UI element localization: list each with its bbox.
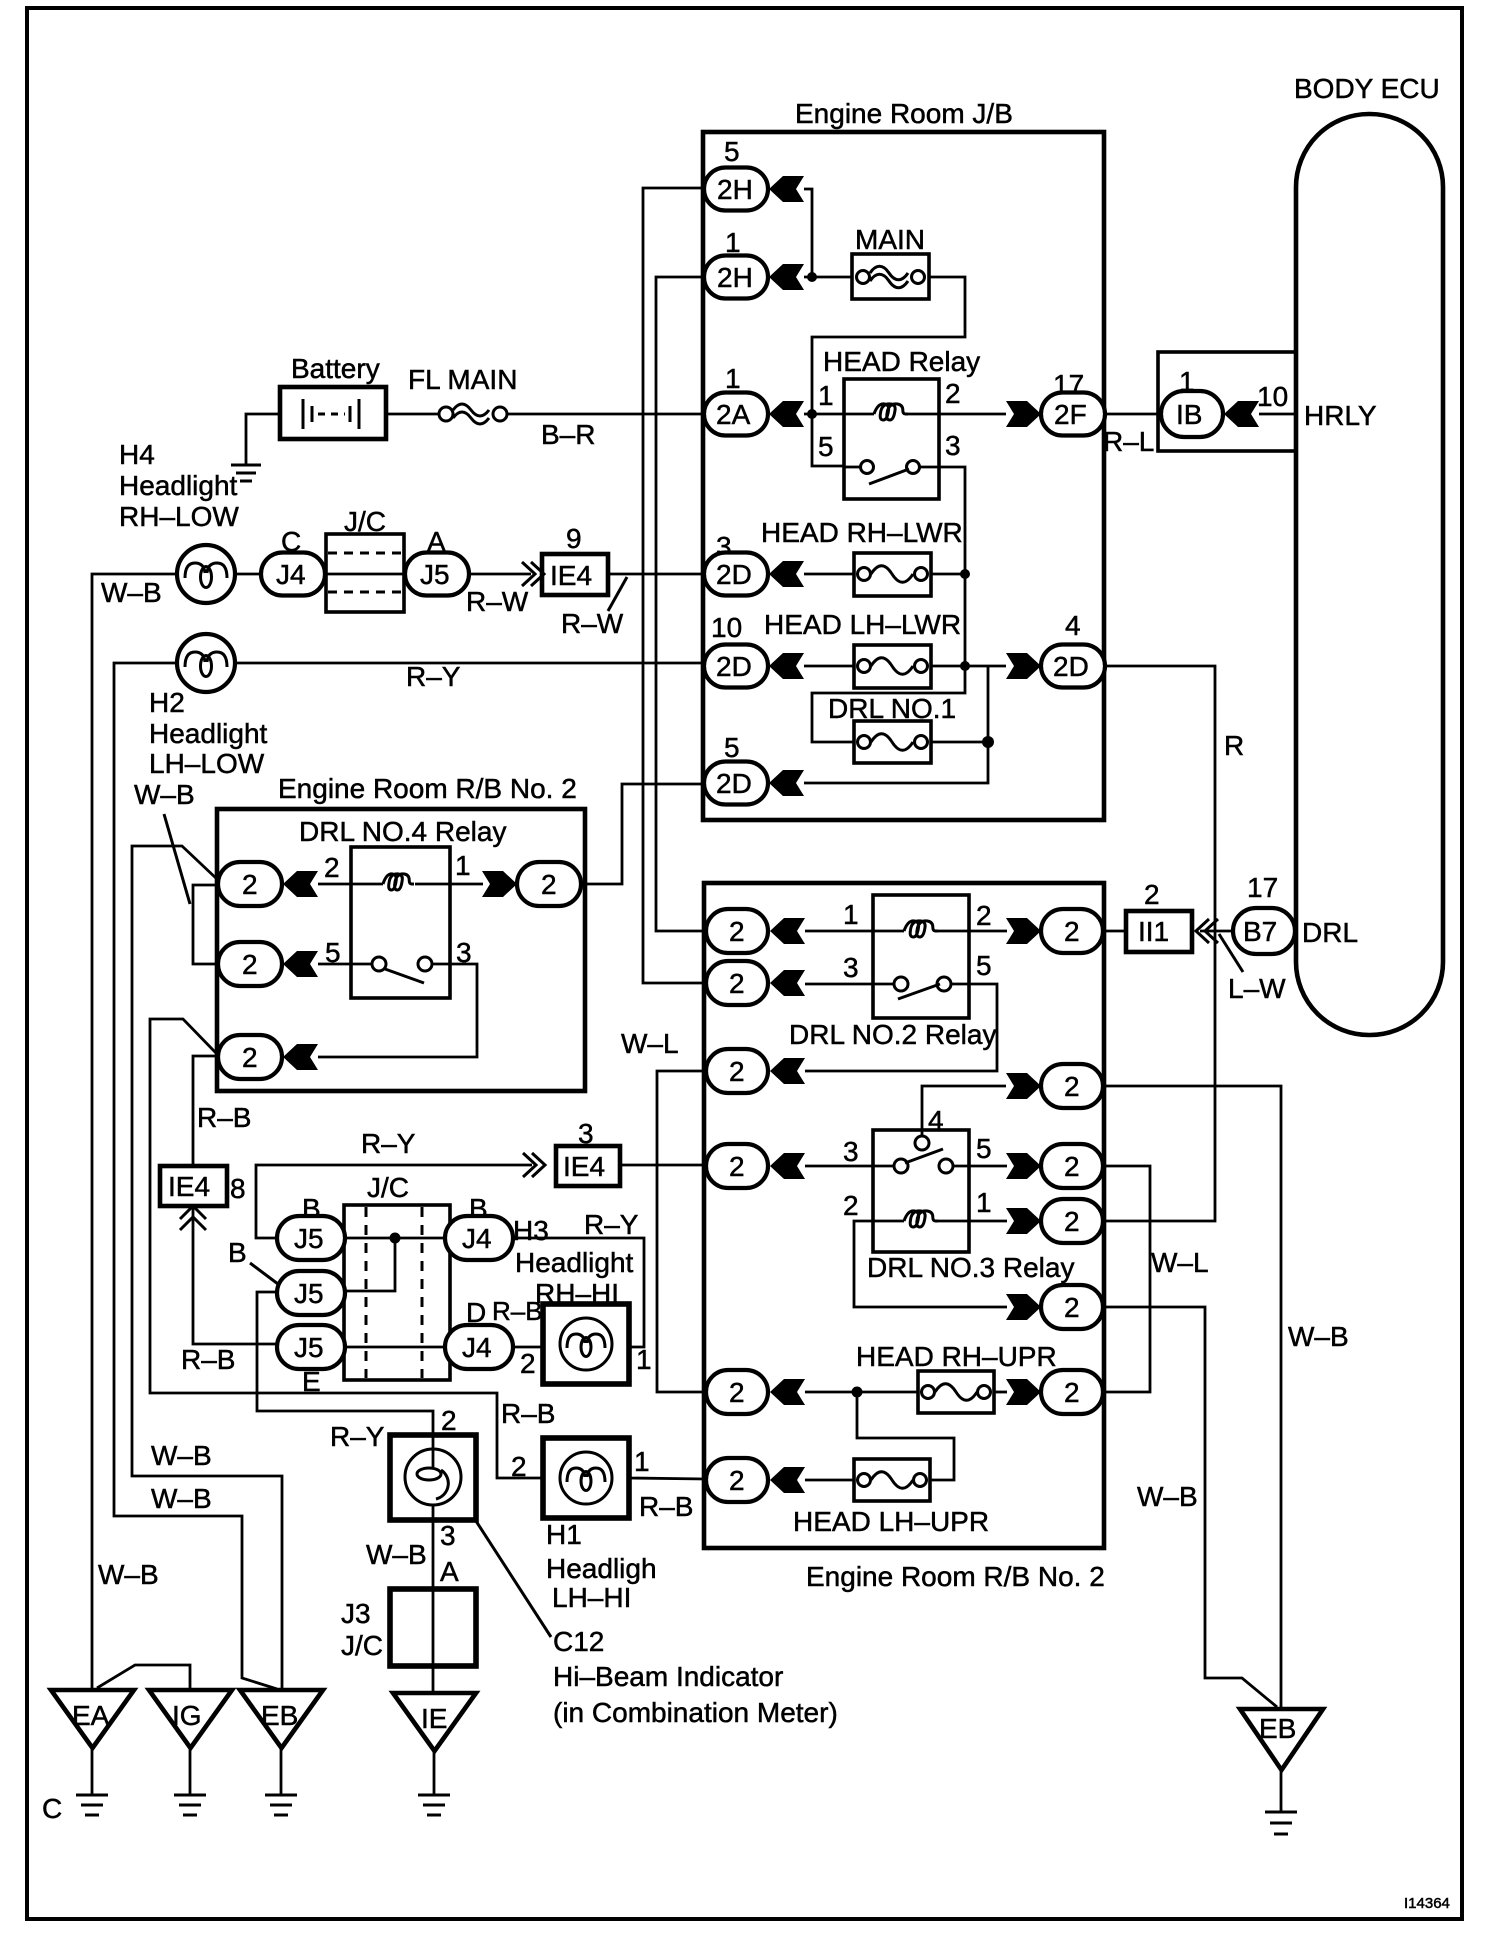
wire feed to fuse bbox=[805, 1391, 918, 1394]
wire IG to EA bbox=[97, 1665, 190, 1690]
arrow into DRL NO.3 pin4 out bbox=[1006, 1073, 1041, 1099]
arrow into RH-UPR feed bbox=[770, 1379, 805, 1405]
connector 2 (DRL NO.4 pin3 row) bbox=[218, 1035, 282, 1079]
W-L jumper wire outside left bbox=[657, 1071, 706, 1392]
svg-text:FL MAIN: FL MAIN bbox=[408, 364, 517, 395]
connector 2A pin 1 bbox=[704, 363, 768, 436]
connector 2 (DRL NO.3 switch pin3 row) bbox=[706, 1144, 768, 1188]
svg-text:DRL: DRL bbox=[1302, 917, 1358, 948]
arrow into right 2 connector bbox=[482, 871, 517, 897]
svg-text:2: 2 bbox=[1064, 1071, 1080, 1102]
svg-text:2: 2 bbox=[729, 968, 745, 999]
HEAD LH-UPR fuse bbox=[793, 1459, 989, 1537]
DRL NO.2 coil bbox=[904, 921, 938, 937]
DRL NO.2 relay box bbox=[873, 895, 969, 1018]
ground triangle IE bbox=[393, 1693, 476, 1815]
svg-text:II1: II1 bbox=[1138, 916, 1169, 947]
svg-text:H3: H3 bbox=[513, 1215, 549, 1246]
svg-text:IE4: IE4 bbox=[168, 1171, 210, 1202]
svg-text:W–B: W–B bbox=[1137, 1481, 1198, 1512]
svg-text:9: 9 bbox=[566, 523, 582, 554]
arrow into 2F bbox=[1006, 401, 1041, 427]
fuse HEAD RH-LWR bbox=[761, 517, 965, 596]
wire H2 to W-B ground via EB bbox=[114, 663, 277, 1689]
junction connector J/C (lower) bbox=[344, 1172, 450, 1380]
svg-text:E: E bbox=[302, 1366, 321, 1397]
svg-text:5: 5 bbox=[976, 1133, 992, 1164]
svg-text:2: 2 bbox=[541, 869, 557, 900]
svg-text:R–B: R–B bbox=[197, 1102, 251, 1133]
svg-text:1: 1 bbox=[818, 380, 834, 411]
svg-text:1: 1 bbox=[976, 1187, 992, 1218]
connector J5 (E) bottom bbox=[277, 1325, 345, 1397]
svg-text:Hi–Beam Indicator: Hi–Beam Indicator bbox=[553, 1661, 783, 1692]
svg-text:5: 5 bbox=[724, 136, 740, 167]
HEAD relay switch bbox=[844, 466, 860, 469]
ground triangle EA bbox=[51, 1690, 134, 1815]
svg-text:2: 2 bbox=[520, 1348, 536, 1379]
fuse DRL NO.1 bbox=[828, 693, 988, 763]
svg-text:B7: B7 bbox=[1243, 916, 1277, 947]
svg-text:2: 2 bbox=[511, 1451, 527, 1482]
svg-text:2D: 2D bbox=[716, 559, 752, 590]
svg-text:LH–LOW: LH–LOW bbox=[149, 748, 265, 779]
wire J4 D to H3 pin2 bbox=[513, 1346, 543, 1349]
svg-text:RH–LOW: RH–LOW bbox=[119, 501, 239, 532]
svg-text:W–L: W–L bbox=[621, 1028, 679, 1059]
svg-text:B–R: B–R bbox=[541, 419, 595, 450]
svg-text:C: C bbox=[42, 1793, 62, 1824]
connector 2 (DRL NO.3 pin4 out, top right) bbox=[1041, 1064, 1103, 1108]
connector 2 (DRL NO.2 coil out) bbox=[1041, 909, 1103, 953]
wire J4 B to H3 pin1 (R-Y) bbox=[513, 1238, 644, 1347]
svg-text:2: 2 bbox=[729, 1151, 745, 1182]
arrow into pin5 out bbox=[1006, 1153, 1041, 1179]
svg-text:R–L: R–L bbox=[1103, 426, 1154, 457]
svg-text:A: A bbox=[440, 1556, 459, 1587]
arrow into coil pin2 out bbox=[1006, 1294, 1041, 1320]
connector 2D pin 10 bbox=[704, 612, 768, 688]
DRL NO.3 pin4 contact bbox=[915, 1136, 929, 1150]
connector B7 pin 17 bbox=[1233, 872, 1295, 954]
wire 2H5 to MAIN junction bbox=[804, 189, 812, 277]
svg-text:2: 2 bbox=[1064, 1151, 1080, 1182]
R-Y wire from J5 (B) up to IE4 (3) bbox=[256, 1165, 532, 1238]
svg-text:R–W: R–W bbox=[466, 586, 529, 617]
svg-text:2: 2 bbox=[324, 852, 340, 883]
arrow into pin5 connector bbox=[283, 951, 318, 977]
wire HRLY to IB bbox=[1259, 413, 1296, 416]
svg-text:(in Combination Meter): (in Combination Meter) bbox=[553, 1697, 838, 1728]
H2 headlight LH-LOW labels bbox=[134, 687, 268, 810]
svg-text:W–B: W–B bbox=[1288, 1321, 1349, 1352]
wire C12 down to J3 bbox=[432, 1520, 435, 1589]
svg-text:W–L: W–L bbox=[1151, 1247, 1209, 1278]
arrow into 2A bbox=[769, 401, 804, 427]
svg-text:R: R bbox=[1224, 730, 1244, 761]
svg-text:HEAD LH–LWR: HEAD LH–LWR bbox=[764, 609, 961, 640]
ground triangle EB (right) bbox=[1240, 1709, 1323, 1834]
svg-text:2: 2 bbox=[729, 1465, 745, 1496]
wire to coil bbox=[318, 883, 383, 886]
svg-text:10: 10 bbox=[711, 612, 742, 643]
wire IE4 to 2D3 bbox=[608, 573, 704, 576]
wire H4 to W-B ground (left) bbox=[92, 574, 177, 1690]
svg-text:Engine Room R/B No. 2: Engine Room R/B No. 2 bbox=[278, 773, 577, 804]
arrow into DRL NO.2 out bbox=[1006, 918, 1041, 944]
wire 2H1 to MAIN fuse bbox=[804, 276, 852, 279]
C12 hi-beam indicator bulb bbox=[390, 1435, 476, 1520]
wire J5 B to J4 B bbox=[345, 1237, 445, 1240]
wire J5 to IE4 bbox=[469, 573, 531, 576]
junction dot DRL NO.1 out bbox=[982, 736, 994, 748]
connector IE4 pin 8 bbox=[160, 1166, 246, 1206]
svg-text:J5: J5 bbox=[420, 559, 450, 590]
connector 2 (HEAD RH-UPR out) bbox=[1041, 1370, 1103, 1414]
svg-text:2: 2 bbox=[1064, 1206, 1080, 1237]
svg-text:3: 3 bbox=[843, 952, 859, 983]
wire arrow to fuse bbox=[805, 1479, 854, 1482]
svg-text:2: 2 bbox=[242, 869, 258, 900]
junction dot in J/C bbox=[390, 1233, 401, 1244]
svg-text:W–B: W–B bbox=[98, 1559, 159, 1590]
junction connector J/C (upper) bbox=[326, 506, 404, 612]
svg-text:H1: H1 bbox=[546, 1519, 582, 1550]
svg-text:3: 3 bbox=[945, 430, 961, 461]
connector II1 pin 2 bbox=[1126, 879, 1192, 952]
wire B-R to 2A bbox=[507, 413, 704, 416]
svg-text:J5: J5 bbox=[294, 1278, 324, 1309]
DRL NO.2 switch bbox=[894, 977, 908, 991]
svg-text:B: B bbox=[228, 1237, 247, 1268]
svg-text:R–Y: R–Y bbox=[584, 1209, 639, 1240]
wire to switch bbox=[318, 963, 372, 966]
arrow into 2D3 bbox=[769, 561, 804, 587]
wire coil to output bbox=[936, 930, 1007, 933]
connector IB pin 1 bbox=[1161, 366, 1223, 437]
wire to DRL NO.2 coil bbox=[805, 930, 904, 933]
svg-text:2: 2 bbox=[843, 1190, 859, 1221]
svg-text:2F: 2F bbox=[1054, 399, 1087, 430]
HEAD relay coil bbox=[874, 404, 908, 420]
svg-text:1: 1 bbox=[455, 850, 471, 881]
arrow into coil pin1 out bbox=[1006, 1208, 1041, 1234]
connector J5 (B) top bbox=[277, 1193, 345, 1260]
chevrons below IE4 (8) bbox=[180, 1206, 206, 1219]
leader line R-W bbox=[608, 577, 627, 611]
ground triangle IG bbox=[149, 1690, 232, 1815]
H2 headlight bulb bbox=[177, 634, 235, 692]
connector J4 (B) bbox=[445, 1193, 513, 1260]
DRL NO.4 relay box bbox=[351, 847, 450, 998]
wire MAIN to HEAD relay pin1/5 bbox=[812, 277, 965, 466]
svg-text:R–Y: R–Y bbox=[406, 661, 461, 692]
fuse HEAD LH-LWR bbox=[764, 609, 1006, 688]
svg-text:2: 2 bbox=[441, 1405, 457, 1436]
junction dot 2A row bbox=[807, 409, 817, 419]
svg-text:EB: EB bbox=[1259, 1713, 1296, 1744]
svg-text:EA: EA bbox=[72, 1700, 110, 1731]
IB connector box bbox=[1158, 352, 1296, 451]
svg-text:8: 8 bbox=[230, 1173, 246, 1204]
wire J5 middle to C12 indicator bbox=[257, 1292, 433, 1435]
svg-text:5: 5 bbox=[976, 950, 992, 981]
connector 2D pin 5 bbox=[704, 732, 768, 805]
H1 headlight LH-HI bulb bbox=[501, 1398, 629, 1518]
HEAD RH-UPR fuse bbox=[856, 1341, 1057, 1413]
H3 headlight RH-HI bulb bbox=[543, 1304, 629, 1384]
svg-text:IE: IE bbox=[421, 1703, 447, 1734]
svg-text:R–B: R–B bbox=[501, 1398, 555, 1429]
connector 2 (DRL NO.3 pin5 out) bbox=[1041, 1144, 1103, 1188]
svg-text:J4: J4 bbox=[462, 1332, 492, 1363]
svg-text:3: 3 bbox=[440, 1520, 456, 1551]
svg-text:2: 2 bbox=[242, 949, 258, 980]
arrow into third connector bbox=[770, 1058, 805, 1084]
svg-text:W–B: W–B bbox=[101, 577, 162, 608]
svg-text:R–W: R–W bbox=[561, 608, 624, 639]
H4 headlight RH-LOW labels bbox=[119, 439, 239, 532]
DRL NO.4 coil bbox=[383, 874, 414, 890]
connector 2 (DRL NO.2 pin5 out) bbox=[706, 1049, 768, 1093]
svg-text:5: 5 bbox=[818, 431, 834, 462]
wire battery negative to ground bbox=[246, 414, 280, 464]
wire pin4 up to connector bbox=[922, 1086, 1006, 1136]
W-B bracket joining rows 1-2 bbox=[193, 885, 218, 964]
chevrons into IE4 (9) bbox=[522, 562, 535, 586]
svg-text:1: 1 bbox=[725, 227, 741, 258]
svg-text:1: 1 bbox=[636, 1344, 652, 1375]
svg-text:H4: H4 bbox=[119, 439, 155, 470]
wire H4 to J4 bbox=[235, 573, 261, 576]
svg-text:J/C: J/C bbox=[367, 1172, 409, 1203]
svg-text:2: 2 bbox=[729, 916, 745, 947]
svg-text:BODY ECU: BODY ECU bbox=[1294, 73, 1440, 104]
wire IE4 (3) to R/B No.2 connector bbox=[620, 1164, 706, 1167]
svg-text:EB: EB bbox=[261, 1700, 298, 1731]
connector 2D pin 3 bbox=[704, 531, 768, 596]
svg-text:J3: J3 bbox=[341, 1598, 371, 1629]
svg-text:3: 3 bbox=[843, 1136, 859, 1167]
wire H2 to 2D10 (R-Y) bbox=[235, 662, 704, 665]
connector 2 (DRL NO.2 coil pin1 row) bbox=[706, 909, 768, 953]
connector 2H pin 1 bbox=[704, 227, 768, 299]
svg-text:R–B: R–B bbox=[639, 1491, 693, 1522]
svg-text:2D: 2D bbox=[1053, 651, 1089, 682]
svg-text:1: 1 bbox=[634, 1446, 650, 1477]
wire DRL NO.2 out to II1 bbox=[1103, 930, 1126, 933]
DRL NO.4 switch bbox=[372, 957, 386, 971]
svg-text:2: 2 bbox=[729, 1056, 745, 1087]
junction dot pin3/RH-LWR bbox=[960, 569, 970, 579]
arrow into 2D10 bbox=[769, 653, 804, 679]
junction dot pin3/LH-LWR bbox=[960, 661, 970, 671]
arrow into third 2 connector bbox=[283, 1044, 318, 1070]
svg-text:LH–HI: LH–HI bbox=[552, 1582, 631, 1613]
svg-text:J4: J4 bbox=[462, 1223, 492, 1254]
connector 2 (DRL NO.2 switch pin3 row) bbox=[706, 961, 768, 1005]
svg-text:J4: J4 bbox=[276, 559, 306, 590]
svg-text:Headlight: Headlight bbox=[149, 718, 268, 749]
Engine Room R/B No.2 (left) box bbox=[217, 809, 585, 1091]
svg-text:J5: J5 bbox=[294, 1332, 324, 1363]
DRL NO.3 relay box bbox=[873, 1130, 969, 1252]
wire J3 to IE ground triangle bbox=[432, 1666, 435, 1693]
svg-text:J/C: J/C bbox=[341, 1630, 383, 1661]
wire to DRL NO.2 switch bbox=[805, 983, 894, 986]
H1 labels bbox=[546, 1519, 657, 1613]
svg-text:2: 2 bbox=[1144, 879, 1160, 910]
fusible link FL MAIN bbox=[386, 364, 517, 424]
svg-text:2H: 2H bbox=[717, 262, 753, 293]
svg-text:4: 4 bbox=[1065, 610, 1081, 641]
fuse MAIN bbox=[852, 224, 929, 299]
svg-text:Engine Room R/B No. 2: Engine Room R/B No. 2 bbox=[806, 1561, 1105, 1592]
connector J4 (C) bbox=[261, 526, 325, 596]
svg-text:Engine Room J/B: Engine Room J/B bbox=[795, 98, 1013, 129]
arrow into DRL NO.4 pin2 connector bbox=[283, 871, 318, 897]
svg-text:HEAD RH–UPR: HEAD RH–UPR bbox=[856, 1341, 1057, 1372]
svg-text:I14364: I14364 bbox=[1404, 1895, 1450, 1912]
connector 2 (HEAD LH-UPR row) bbox=[706, 1458, 768, 1502]
connector J4 (D) bbox=[445, 1296, 543, 1369]
arrow into 2H pin 1 bbox=[769, 264, 804, 290]
wire coil pin2 down to output bbox=[854, 1221, 1007, 1307]
junction connector J3 J/C bbox=[341, 1589, 476, 1666]
svg-text:HEAD RH–LWR: HEAD RH–LWR bbox=[761, 517, 963, 548]
ground triangle EB (left) bbox=[240, 1690, 323, 1815]
wire 2H5 outside to DRL NO.2 relay pin 3 bbox=[643, 188, 706, 983]
svg-text:2: 2 bbox=[1064, 1377, 1080, 1408]
W-L wire right side (pin5 out to RH-UPR out) bbox=[1103, 1166, 1150, 1392]
svg-text:W–B: W–B bbox=[151, 1483, 212, 1514]
wire 2F to IB bbox=[1105, 413, 1161, 416]
svg-text:DRL NO.4 Relay: DRL NO.4 Relay bbox=[299, 816, 506, 847]
chevrons into IE4 (3) bbox=[523, 1153, 536, 1177]
wire pin5 to output bbox=[953, 1165, 1007, 1168]
svg-text:R–B: R–B bbox=[492, 1296, 543, 1326]
svg-text:DRL NO.2 Relay: DRL NO.2 Relay bbox=[789, 1019, 996, 1050]
svg-text:R–B: R–B bbox=[181, 1344, 235, 1375]
wire B7 to II1 (L-W) bbox=[1200, 930, 1234, 933]
R-B wire from DRL NO.4 pin3 row to H1 bbox=[150, 1019, 543, 1478]
wire switch pin3 down to third connector bbox=[318, 964, 477, 1057]
svg-text:1: 1 bbox=[843, 899, 859, 930]
svg-text:1: 1 bbox=[725, 363, 741, 394]
wire HEAD relay pin2 to 2F bbox=[939, 413, 1006, 416]
svg-text:IE4: IE4 bbox=[550, 560, 592, 591]
svg-text:2D: 2D bbox=[716, 768, 752, 799]
wire coil to output connector bbox=[415, 883, 483, 886]
svg-text:5: 5 bbox=[724, 732, 740, 763]
arrow into 2D4 bbox=[1006, 653, 1041, 679]
connector 2 (HEAD RH-UPR feed row) bbox=[706, 1370, 768, 1414]
svg-text:IG: IG bbox=[172, 1700, 202, 1731]
chevrons into II1 bbox=[1196, 919, 1209, 943]
arrow into 2D5 bbox=[769, 770, 804, 796]
svg-text:Headlight: Headlight bbox=[119, 470, 238, 501]
connector 2 (DRL NO.3 coil pin1 out) bbox=[1041, 1199, 1103, 1243]
svg-text:J5: J5 bbox=[294, 1223, 324, 1254]
arrow into 2H pin 5 bbox=[769, 176, 804, 202]
connector 2D pin 4 bbox=[1041, 610, 1105, 688]
connector 2 (DRL NO.4 coil out, pin2 row) bbox=[218, 862, 282, 906]
W-B wire DRL NO.3 pin4 out to EB ground bbox=[1103, 1086, 1281, 1709]
junction dot 2H1/MAIN bbox=[807, 272, 817, 282]
connector J5 (A) bbox=[405, 526, 469, 596]
svg-text:2: 2 bbox=[976, 900, 992, 931]
connector J5 (B) middle bbox=[228, 1237, 345, 1315]
svg-text:W–B: W–B bbox=[366, 1539, 427, 1570]
DRL NO.3 switch bbox=[894, 1159, 908, 1173]
HEAD Relay bbox=[818, 346, 980, 499]
leader line L-W bbox=[1219, 934, 1243, 972]
ground at battery bbox=[231, 465, 261, 481]
connector 2 (DRL NO.4 pin1 out) bbox=[517, 862, 581, 906]
R wire 2D4 to DRL NO.3 coil pin1 bbox=[1103, 666, 1215, 1221]
wire DRL NO.2 pin5 down to third connector bbox=[805, 984, 997, 1071]
leader line C12 bbox=[476, 1521, 551, 1637]
wire 2H1 outside to DRL NO.2 relay pin 1 bbox=[656, 277, 706, 931]
svg-text:2H: 2H bbox=[717, 174, 753, 205]
wire junction down to LH-UPR fuse bbox=[857, 1392, 954, 1480]
wire fuse to output bbox=[994, 1391, 1007, 1394]
connector 2F pin 17 bbox=[1041, 369, 1105, 436]
arrow into LH-UPR bbox=[770, 1467, 805, 1493]
svg-text:Headlight: Headlight bbox=[515, 1247, 634, 1278]
arrow into pin3 bbox=[770, 1153, 805, 1179]
connector 2 (DRL NO.4 switch pin5 row) bbox=[218, 942, 282, 986]
svg-text:W–B: W–B bbox=[151, 1440, 212, 1471]
svg-text:Battery: Battery bbox=[291, 353, 380, 384]
wire H1 pin1 to R/B connector bbox=[629, 1478, 706, 1479]
DRL NO.3 coil bbox=[904, 1211, 938, 1227]
arrow into IB bbox=[1224, 401, 1259, 427]
svg-text:2: 2 bbox=[945, 378, 961, 409]
svg-text:R–Y: R–Y bbox=[361, 1128, 416, 1159]
svg-text:HEAD LH–UPR: HEAD LH–UPR bbox=[793, 1506, 989, 1537]
svg-text:MAIN: MAIN bbox=[855, 224, 925, 255]
connector IE4 pin 9 bbox=[542, 523, 608, 595]
svg-text:IE4: IE4 bbox=[563, 1151, 605, 1182]
connector 2H pin 5 bbox=[704, 136, 768, 211]
junction dot RH-UPR bbox=[852, 1387, 863, 1398]
Engine Room R/B No.2 (right) box bbox=[704, 883, 1104, 1548]
svg-text:2: 2 bbox=[729, 1377, 745, 1408]
svg-text:2: 2 bbox=[1064, 1292, 1080, 1323]
wire DRL NO.1 up to 2D4 and down to 2D5 bbox=[804, 666, 988, 783]
svg-text:2: 2 bbox=[1064, 916, 1080, 947]
wire 2A to HEAD relay pin 1 bbox=[804, 413, 874, 416]
wire HEAD relay pin3 down to fuses bbox=[812, 467, 965, 742]
wire IE4 (8) down to J5 (E) bbox=[193, 1208, 277, 1344]
BODY ECU capsule bbox=[1296, 114, 1443, 1035]
svg-text:W–B: W–B bbox=[134, 779, 195, 810]
W-B wire DRL NO.3 coil pin2 out to EB ground bbox=[1103, 1307, 1277, 1707]
W-B wire from DRL NO.4 row1 to EB ground bbox=[132, 846, 282, 1690]
svg-text:H2: H2 bbox=[149, 687, 185, 718]
H4 headlight bulb bbox=[177, 545, 235, 603]
svg-text:DRL NO.3 Relay: DRL NO.3 Relay bbox=[867, 1252, 1074, 1283]
svg-text:HEAD Relay: HEAD Relay bbox=[823, 346, 980, 377]
wire coil pin1 to output bbox=[936, 1220, 1007, 1223]
Engine Room J/B box bbox=[703, 132, 1104, 820]
svg-text:HRLY: HRLY bbox=[1304, 400, 1377, 431]
svg-text:L–W: L–W bbox=[1228, 973, 1286, 1004]
svg-text:5: 5 bbox=[325, 937, 341, 968]
Battery bbox=[280, 353, 386, 439]
svg-text:C12: C12 bbox=[553, 1626, 604, 1657]
